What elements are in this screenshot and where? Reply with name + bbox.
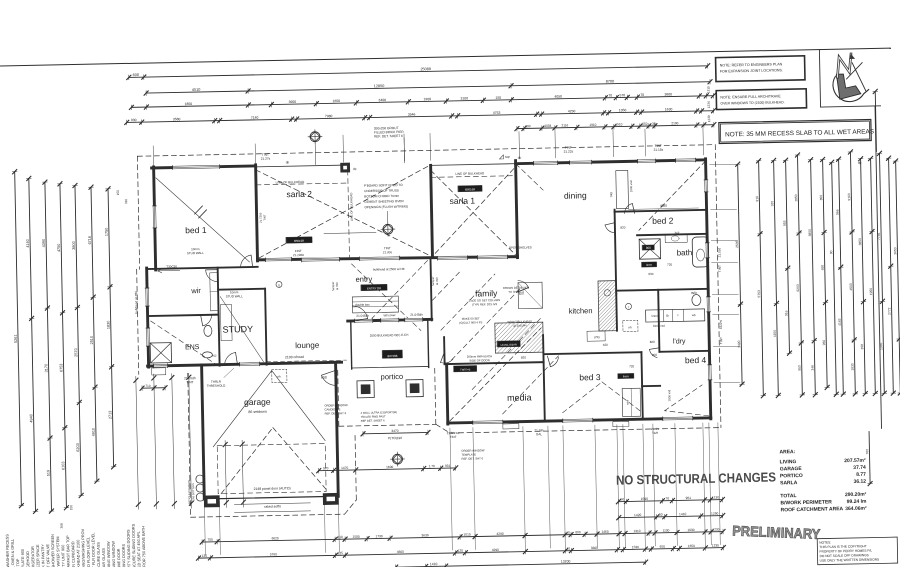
svg-text:RANGEHOOD: RANGEHOOD (26, 551, 31, 567)
wall garage left (202, 365, 205, 499)
svg-text:4753: 4753 (493, 111, 501, 115)
svg-text:1030: 1030 (687, 528, 694, 532)
svg-text:5753: 5753 (757, 290, 761, 298)
svg-text:2116: 2116 (561, 123, 568, 127)
bed2 dim 4080 (629, 208, 699, 209)
svg-text:970: 970 (323, 466, 329, 470)
svg-text:AWNING WINDOW: AWNING WINDOW (112, 541, 117, 567)
svg-text:TINT: TINT (263, 214, 267, 221)
svg-text:WDW T/BULKHEAD: WDW T/BULKHEAD (507, 319, 532, 323)
dashed raking lines family (432, 270, 463, 301)
svg-text:OPEN SHELVES: OPEN SHELVES (509, 245, 532, 249)
logo box lines (819, 50, 820, 107)
svg-text:21.2960: 21.2960 (293, 253, 305, 257)
svg-text:3800: 3800 (72, 241, 76, 250)
dashed X sarla1 (431, 169, 516, 257)
svg-text:G: G (278, 283, 280, 287)
circled G symbol (276, 281, 282, 287)
svg-text:BREAKFAST BAR TOP: BREAKFAST BAR TOP (66, 535, 71, 567)
svg-text:REF DET. SHEET 6: REF DET. SHEET 6 (361, 418, 385, 422)
svg-text:dp: dp (353, 167, 357, 171)
svg-text:oh: oh (277, 374, 281, 378)
portico pier left (357, 381, 374, 398)
svg-text:HOTPLATE 900: HOTPLATE 900 (21, 549, 26, 567)
eaves dashed outline left lower (137, 269, 139, 374)
svg-text:953: 953 (783, 220, 787, 226)
svg-text:1410: 1410 (430, 562, 438, 566)
svg-text:10: 10 (567, 546, 571, 550)
dashed bulkhead line sarla1 (431, 176, 514, 178)
svg-text:1830: 1830 (850, 363, 854, 371)
wall bed1 left (154, 167, 156, 270)
svg-text:21.22s: 21.22s (564, 149, 574, 153)
svg-text:650: 650 (821, 265, 825, 271)
svg-text:kitchen: kitchen (569, 306, 593, 315)
svg-text:207.57m²: 207.57m² (844, 458, 866, 464)
svg-text:1490: 1490 (737, 340, 741, 348)
note box engineers plan (716, 56, 805, 82)
svg-text:bed 2: bed 2 (652, 215, 674, 225)
svg-text:REF. DET. SHT 6: REF. DET. SHT 6 (325, 411, 347, 415)
svg-text:STUD WALL: STUD WALL (187, 251, 204, 255)
svg-text:FRAME DOOR: FRAME DOOR (117, 548, 122, 567)
wall west lower (wir/ens) (147, 268, 149, 367)
windows dining north wall (534, 161, 558, 165)
wall bed3/robes divider (641, 352, 642, 419)
svg-text:Br: Br (666, 314, 669, 318)
svg-text:sarla 1: sarla 1 (449, 195, 475, 206)
svg-text:950: 950 (822, 340, 826, 346)
black tag sarla2 window (286, 237, 312, 244)
wall north (dining/bed2) (516, 160, 706, 164)
svg-text:1230: 1230 (712, 543, 719, 547)
svg-text:ENTRY DR: ENTRY DR (367, 286, 381, 290)
svg-text:1239: 1239 (707, 115, 711, 122)
kitchen oh box (623, 320, 638, 331)
svg-text:bed 1: bed 1 (185, 225, 207, 235)
svg-text:2570: 2570 (74, 348, 78, 357)
wall east (706, 159, 711, 419)
svg-text:99.24 lm: 99.24 lm (847, 499, 867, 505)
note box archtrave (716, 89, 806, 110)
svg-text:3850: 3850 (858, 238, 862, 246)
svg-text:raked soffit: raked soffit (264, 504, 281, 508)
svg-text:2100: 2100 (671, 121, 678, 125)
svg-text:1900: 1900 (423, 97, 431, 101)
svg-text:50: 50 (621, 497, 625, 501)
svg-text:300: 300 (525, 124, 531, 128)
dashed diag entry (352, 263, 421, 332)
svg-text:750x250 RWD PAST: 750x250 RWD PAST (361, 414, 386, 419)
top dimension chain 3 (1850/3900/1650/3400/1900/3100/150/4050/70/570/3600/1310) (131, 96, 713, 108)
svg-text:B5016R: B5016R (294, 239, 304, 243)
svg-text:8.77: 8.77 (856, 472, 866, 478)
svg-text:3630: 3630 (421, 533, 428, 537)
svg-text:GAS BOTTLES: GAS BOTTLES (191, 483, 195, 501)
svg-text:REF. DET. SHEET 6: REF. DET. SHEET 6 (374, 134, 403, 139)
portico survey symbol (392, 454, 402, 464)
svg-text:LINE OF BULKHEAD: LINE OF BULKHEAD (455, 171, 485, 176)
svg-text:1010: 1010 (463, 532, 470, 536)
svg-text:STUD WALL: STUD WALL (226, 294, 243, 298)
svg-text:66.6%: 66.6% (719, 320, 723, 329)
svg-text:4910: 4910 (92, 428, 96, 437)
extension lines from south wall down to bottom chains (204, 502, 205, 555)
svg-text:2535: 2535 (735, 240, 739, 248)
door bed4 720 (649, 349, 657, 357)
svg-text:90: 90 (829, 250, 833, 254)
svg-text:DAL: DAL (536, 432, 542, 436)
svg-text:tall cover: tall cover (384, 313, 396, 317)
left dimension chain block (7 vertical chains) (15, 172, 22, 506)
svg-text:308: 308 (860, 344, 864, 350)
svg-text:REFRIGERATOR: REFRIGERATOR (31, 546, 36, 567)
svg-text:1580: 1580 (352, 535, 359, 539)
svg-text:13200: 13200 (561, 559, 571, 563)
svg-text:6203: 6203 (76, 443, 80, 452)
svg-text:SIDE OF DOOR: SIDE OF DOOR (469, 358, 489, 362)
svg-text:1730: 1730 (375, 534, 382, 538)
ens wc oval (204, 325, 212, 336)
svg-text:50: 50 (659, 513, 663, 517)
dashed hip media (448, 328, 543, 421)
svg-text:2510: 2510 (90, 336, 94, 345)
bed4 robes (622, 388, 641, 416)
svg-text:REF. DET. SHT 6: REF. DET. SHT 6 (461, 456, 483, 460)
svg-text:310: 310 (124, 199, 128, 205)
svg-text:KD: KD (212, 354, 216, 358)
svg-text:346: 346 (811, 365, 815, 371)
svg-text:1410: 1410 (679, 512, 687, 516)
wall robes mid (642, 385, 660, 387)
svg-text:12850: 12850 (374, 84, 385, 88)
wall ldry south (659, 351, 709, 352)
svg-text:garage: garage (244, 397, 271, 408)
svg-text:TO SHEET 5: TO SHEET 5 (508, 290, 524, 294)
svg-text:CLEAR GLASS: CLEAR GLASS (102, 548, 107, 567)
svg-text:1.70: 1.70 (429, 464, 436, 468)
logo compass bird (832, 54, 869, 102)
kitchen smoke detector (625, 303, 631, 309)
notes box bottom right (817, 537, 898, 565)
svg-text:1750: 1750 (105, 228, 109, 237)
svg-text:820: 820 (521, 355, 526, 359)
kitchen island bench hatch (495, 322, 544, 353)
svg-text:4 WALL ULTRA (C)SPORT(M): 4 WALL ULTRA (C)SPORT(M) (361, 410, 397, 415)
svg-text:THRESHOLD: THRESHOLD (207, 384, 226, 388)
svg-text:6203: 6203 (796, 284, 800, 292)
garage pier right (323, 493, 338, 504)
svg-text:21.045dh: 21.045dh (410, 313, 423, 317)
svg-text:@ 2001PH: @ 2001PH (513, 323, 526, 327)
svg-text:VANITY UNIT 900: VANITY UNIT 900 (61, 545, 66, 567)
svg-text:entry: entry (355, 275, 372, 284)
svg-text:1050: 1050 (619, 108, 627, 112)
svg-text:21.18s: 21.18s (654, 148, 664, 152)
svg-text:oh: oh (628, 325, 632, 329)
wall bed1 right (sarla2 west) (256, 165, 258, 261)
svg-text:BULKHEAD AT 2100: BULKHEAD AT 2100 (76, 540, 81, 567)
svg-text:T&H: T&H (652, 431, 658, 435)
eaves dashed outline left upper (137, 156, 139, 269)
svg-text:720: 720 (629, 364, 634, 368)
wall front south of ens/study/lounge + garage top (148, 362, 342, 366)
svg-text:1600: 1600 (386, 465, 393, 469)
svg-text:FREEZER SPACE: FREEZER SPACE (36, 544, 41, 567)
svg-text:1234: 1234 (707, 101, 711, 108)
study nook (220, 304, 232, 340)
svg-text:lounge: lounge (295, 341, 320, 350)
dashed bulkhead line sarla2 (256, 183, 346, 185)
kitchen fridge (518, 282, 543, 308)
portico tag (382, 350, 402, 358)
svg-text:8100 vsd: 8100 vsd (653, 324, 665, 328)
svg-text:6020: 6020 (272, 536, 279, 540)
svg-text:3650: 3650 (893, 247, 897, 255)
svg-text:1950: 1950 (869, 288, 873, 296)
svg-text:519: 519 (46, 470, 50, 476)
svg-text:86 setdown: 86 setdown (248, 410, 266, 414)
svg-text:TINT: TINT (450, 435, 457, 439)
dashed hip bed2 from NE corner (638, 161, 707, 230)
svg-text:37.74: 37.74 (853, 465, 866, 471)
svg-text:dp: dp (518, 156, 522, 160)
door ens (202, 315, 211, 326)
svg-text:5760: 5760 (270, 552, 277, 556)
svg-text:OBSCURE GLASS: OBSCURE GLASS (97, 542, 102, 567)
pier sarla2 NE (341, 163, 350, 172)
svg-text:2100 o/head: 2100 o/head (285, 355, 304, 359)
svg-text:linen: linen (623, 374, 629, 378)
svg-text:tap: tap (505, 155, 510, 159)
svg-text:820: 820 (620, 225, 625, 229)
svg-text:at 780: at 780 (335, 282, 339, 290)
eaves dashed outline portico (339, 424, 436, 426)
svg-text:8700: 8700 (606, 79, 615, 83)
garage dashed chevron (220, 428, 274, 494)
svg-text:2500 BULKHEAD O(F) E.CH: 2500 BULKHEAD O(F) E.CH (370, 333, 409, 338)
svg-text:1830: 1830 (106, 321, 110, 330)
door hall-bath 820 (605, 225, 614, 233)
svg-text:1230: 1230 (712, 527, 719, 531)
svg-text:1510: 1510 (615, 122, 622, 126)
svg-text:media: media (507, 392, 532, 402)
svg-text:130: 130 (202, 554, 208, 558)
door bed1 (240, 255, 251, 267)
study diagonal (220, 296, 263, 363)
wall bath south (616, 289, 708, 291)
garage pier left (204, 496, 219, 507)
svg-text:966: 966 (835, 209, 839, 215)
wall entry front (porch) (348, 319, 432, 321)
svg-text:4290: 4290 (492, 548, 499, 552)
wir shelves (210, 273, 219, 311)
svg-text:UNDERSIDE OF TRUSS: UNDERSIDE OF TRUSS (364, 188, 399, 193)
svg-text:DRAWN DETAIL NO2: DRAWN DETAIL NO2 (503, 285, 530, 290)
wall study north (218, 288, 265, 291)
svg-text:4250: 4250 (568, 109, 576, 113)
svg-text:1250: 1250 (711, 511, 719, 515)
svg-text:700: 700 (207, 538, 213, 542)
svg-text:1470: 1470 (341, 466, 348, 470)
svg-text:l'dry: l'dry (673, 338, 686, 345)
svg-text:720: 720 (667, 263, 672, 267)
windows west walls (152, 206, 156, 228)
svg-text:linen: linen (646, 263, 652, 267)
svg-text:1000 vsd: 1000 vsd (667, 389, 671, 401)
svg-text:290.20m²: 290.20m² (845, 492, 867, 498)
wall entry east (430, 257, 431, 320)
svg-text:10: 10 (566, 530, 570, 534)
bed1 ceiling diagonal (156, 176, 250, 264)
extension lines from east wall to right chains (710, 163, 736, 166)
svg-text:p'try: p'try (594, 335, 600, 339)
svg-text:P(TO)196: P(TO)196 (388, 436, 402, 440)
svg-text:1650: 1650 (333, 99, 341, 103)
svg-text:25089: 25089 (420, 67, 431, 71)
svg-text:bulkhead at 780: bulkhead at 780 (134, 291, 138, 314)
sheet right border (875, 106, 881, 428)
wall portico east (427, 319, 430, 367)
svg-text:bed 3: bed 3 (579, 372, 601, 382)
bottom dimension chain C (700/6020/210/1580/1730/3630/1010/4290/800/1460/1310/1130) (202, 532, 723, 542)
eaves dashed outline top (137, 145, 715, 157)
top chain extension lines down to walls (342, 135, 345, 162)
svg-text:bath: bath (677, 248, 693, 257)
svg-text:70: 70 (640, 93, 644, 97)
svg-text:368: 368 (60, 523, 64, 529)
svg-text:150: 150 (69, 505, 73, 511)
svg-text:HOT WATER SYSTEM: HOT WATER SYSTEM (56, 536, 61, 567)
svg-text:600: 600 (133, 73, 139, 77)
entry tags (361, 284, 387, 291)
door front entry (352, 306, 367, 319)
bath shower xbox (639, 239, 660, 259)
svg-text:LINEN CUPBOARD: LINEN CUPBOARD (71, 541, 76, 567)
svg-text:sarla 2: sarla 2 (286, 189, 312, 200)
garage truss V solid (212, 371, 273, 447)
svg-text:4940: 4940 (29, 414, 33, 423)
black tag sarla1 window (458, 185, 482, 191)
svg-text:ROOF CATCHMENT AREA: ROOF CATCHMENT AREA (781, 506, 844, 513)
svg-text:LIVING: LIVING (780, 459, 797, 465)
svg-text:4163: 4163 (838, 318, 842, 326)
svg-text:WALK IN PANTRY: WALK IN PANTRY (41, 544, 46, 567)
svg-text:710: 710 (145, 384, 150, 388)
svg-text:TINT: TINT (718, 265, 722, 272)
svg-text:AREA:: AREA: (779, 449, 795, 455)
svg-text:1230: 1230 (712, 495, 720, 499)
dashed hips bed3/bed4 (562, 382, 603, 413)
svg-text:4750: 4750 (57, 244, 61, 253)
svg-text:SINK TOP: SINK TOP (16, 558, 20, 567)
svg-text:at 780: at 780 (435, 277, 439, 285)
svg-text:950: 950 (798, 365, 802, 371)
svg-text:5261: 5261 (14, 334, 18, 343)
bottom dimension chain E (partial 1410 / 13200) (396, 562, 646, 567)
svg-text:630: 630 (648, 272, 653, 276)
svg-text:SHUT OFF VALVE: SHUT OFF VALVE (46, 543, 51, 567)
svg-text:150: 150 (495, 96, 501, 100)
svg-text:TOTAL: TOTAL (780, 493, 796, 499)
bed2 robe (616, 170, 629, 208)
svg-text:P'BOARD SOFIT FIXED TO: P'BOARD SOFIT FIXED TO (364, 183, 403, 188)
svg-text:LINE OF BULKHEAD: LINE OF BULKHEAD (276, 180, 306, 185)
svg-text:4500: 4500 (849, 283, 853, 291)
svg-text:4140: 4140 (26, 239, 30, 248)
survey symbol mid with leader (383, 224, 393, 234)
svg-text:3600: 3600 (664, 92, 672, 96)
wall bed2 south (615, 210, 707, 212)
ens basin (202, 352, 212, 358)
svg-text:PORTICO: PORTICO (780, 473, 803, 479)
dashed X sarla2 (256, 166, 430, 258)
svg-text:T30C50: T30C50 (166, 264, 177, 268)
svg-text:916: 916 (755, 196, 759, 202)
wall south (media to bed4) (448, 418, 711, 423)
svg-text:B0726B: B0726B (387, 354, 397, 358)
svg-text:6103: 6103 (61, 462, 65, 471)
svg-text:ENS: ENS (185, 344, 200, 351)
svg-text:3400: 3400 (379, 98, 387, 102)
svg-text:TINT: TINT (186, 380, 193, 384)
svg-text:3100: 3100 (460, 96, 468, 100)
bottom dimension chain A (right half upper) (618, 500, 722, 502)
door garage rear 600 (322, 375, 337, 386)
svg-text:dp: dp (858, 161, 862, 165)
svg-text:320: 320 (603, 343, 608, 347)
svg-text:1850: 1850 (185, 102, 193, 106)
svg-text:70: 70 (665, 496, 669, 500)
svg-text:1310: 1310 (706, 86, 710, 93)
top dimension chain 5 (300/1004/2116/1510/650/2100/1230) (517, 125, 714, 129)
wall wir-study divider (218, 268, 220, 366)
svg-text:B/WORK PERIMETER: B/WORK PERIMETER (780, 499, 832, 506)
svg-text:2713: 2713 (108, 411, 112, 420)
top dimension chain 1 (overall 600 / 25089) (129, 66, 708, 78)
bath vanity (665, 234, 687, 242)
svg-text:4050: 4050 (554, 95, 562, 99)
svg-text:21.0sd: 21.0sd (717, 248, 721, 258)
svg-text:4290: 4290 (496, 532, 503, 536)
windows east wall (704, 180, 708, 192)
svg-text:600: 600 (321, 375, 327, 379)
svg-text:7736: 7736 (877, 233, 881, 241)
svg-text:4080: 4080 (660, 204, 667, 208)
svg-text:916: 916 (784, 310, 788, 316)
svg-text:1150: 1150 (773, 330, 777, 337)
sill rect under ens (152, 368, 166, 375)
dashed diag ens (151, 320, 217, 366)
wall garage bottom (204, 496, 338, 499)
robe row boxes (linen/br/wb) (646, 309, 705, 322)
svg-text:70: 70 (608, 94, 612, 98)
eaves dashed outline bottom (450, 428, 721, 433)
wall kitchen south / bed3 north (543, 352, 641, 354)
svg-text:21.30s: 21.30s (383, 250, 393, 254)
left lower extension lines to bottom chains (136, 376, 139, 509)
svg-text:ARTICLE POSITION: ARTICLE POSITION (187, 480, 191, 504)
svg-text:dining: dining (564, 190, 587, 200)
top dimension chain 2 (4510 / 12850 / 8700) (146, 82, 710, 93)
wall sarla1 west pier line (431, 165, 433, 257)
svg-text:1000 vsd: 1000 vsd (629, 180, 633, 192)
dashed bulkhead vertical sarla2 east (348, 170, 350, 257)
wall garage right (336, 362, 339, 496)
svg-text:150: 150 (116, 190, 120, 196)
svg-text:robe: robe (625, 399, 629, 405)
sheet top border line (1, 48, 891, 66)
